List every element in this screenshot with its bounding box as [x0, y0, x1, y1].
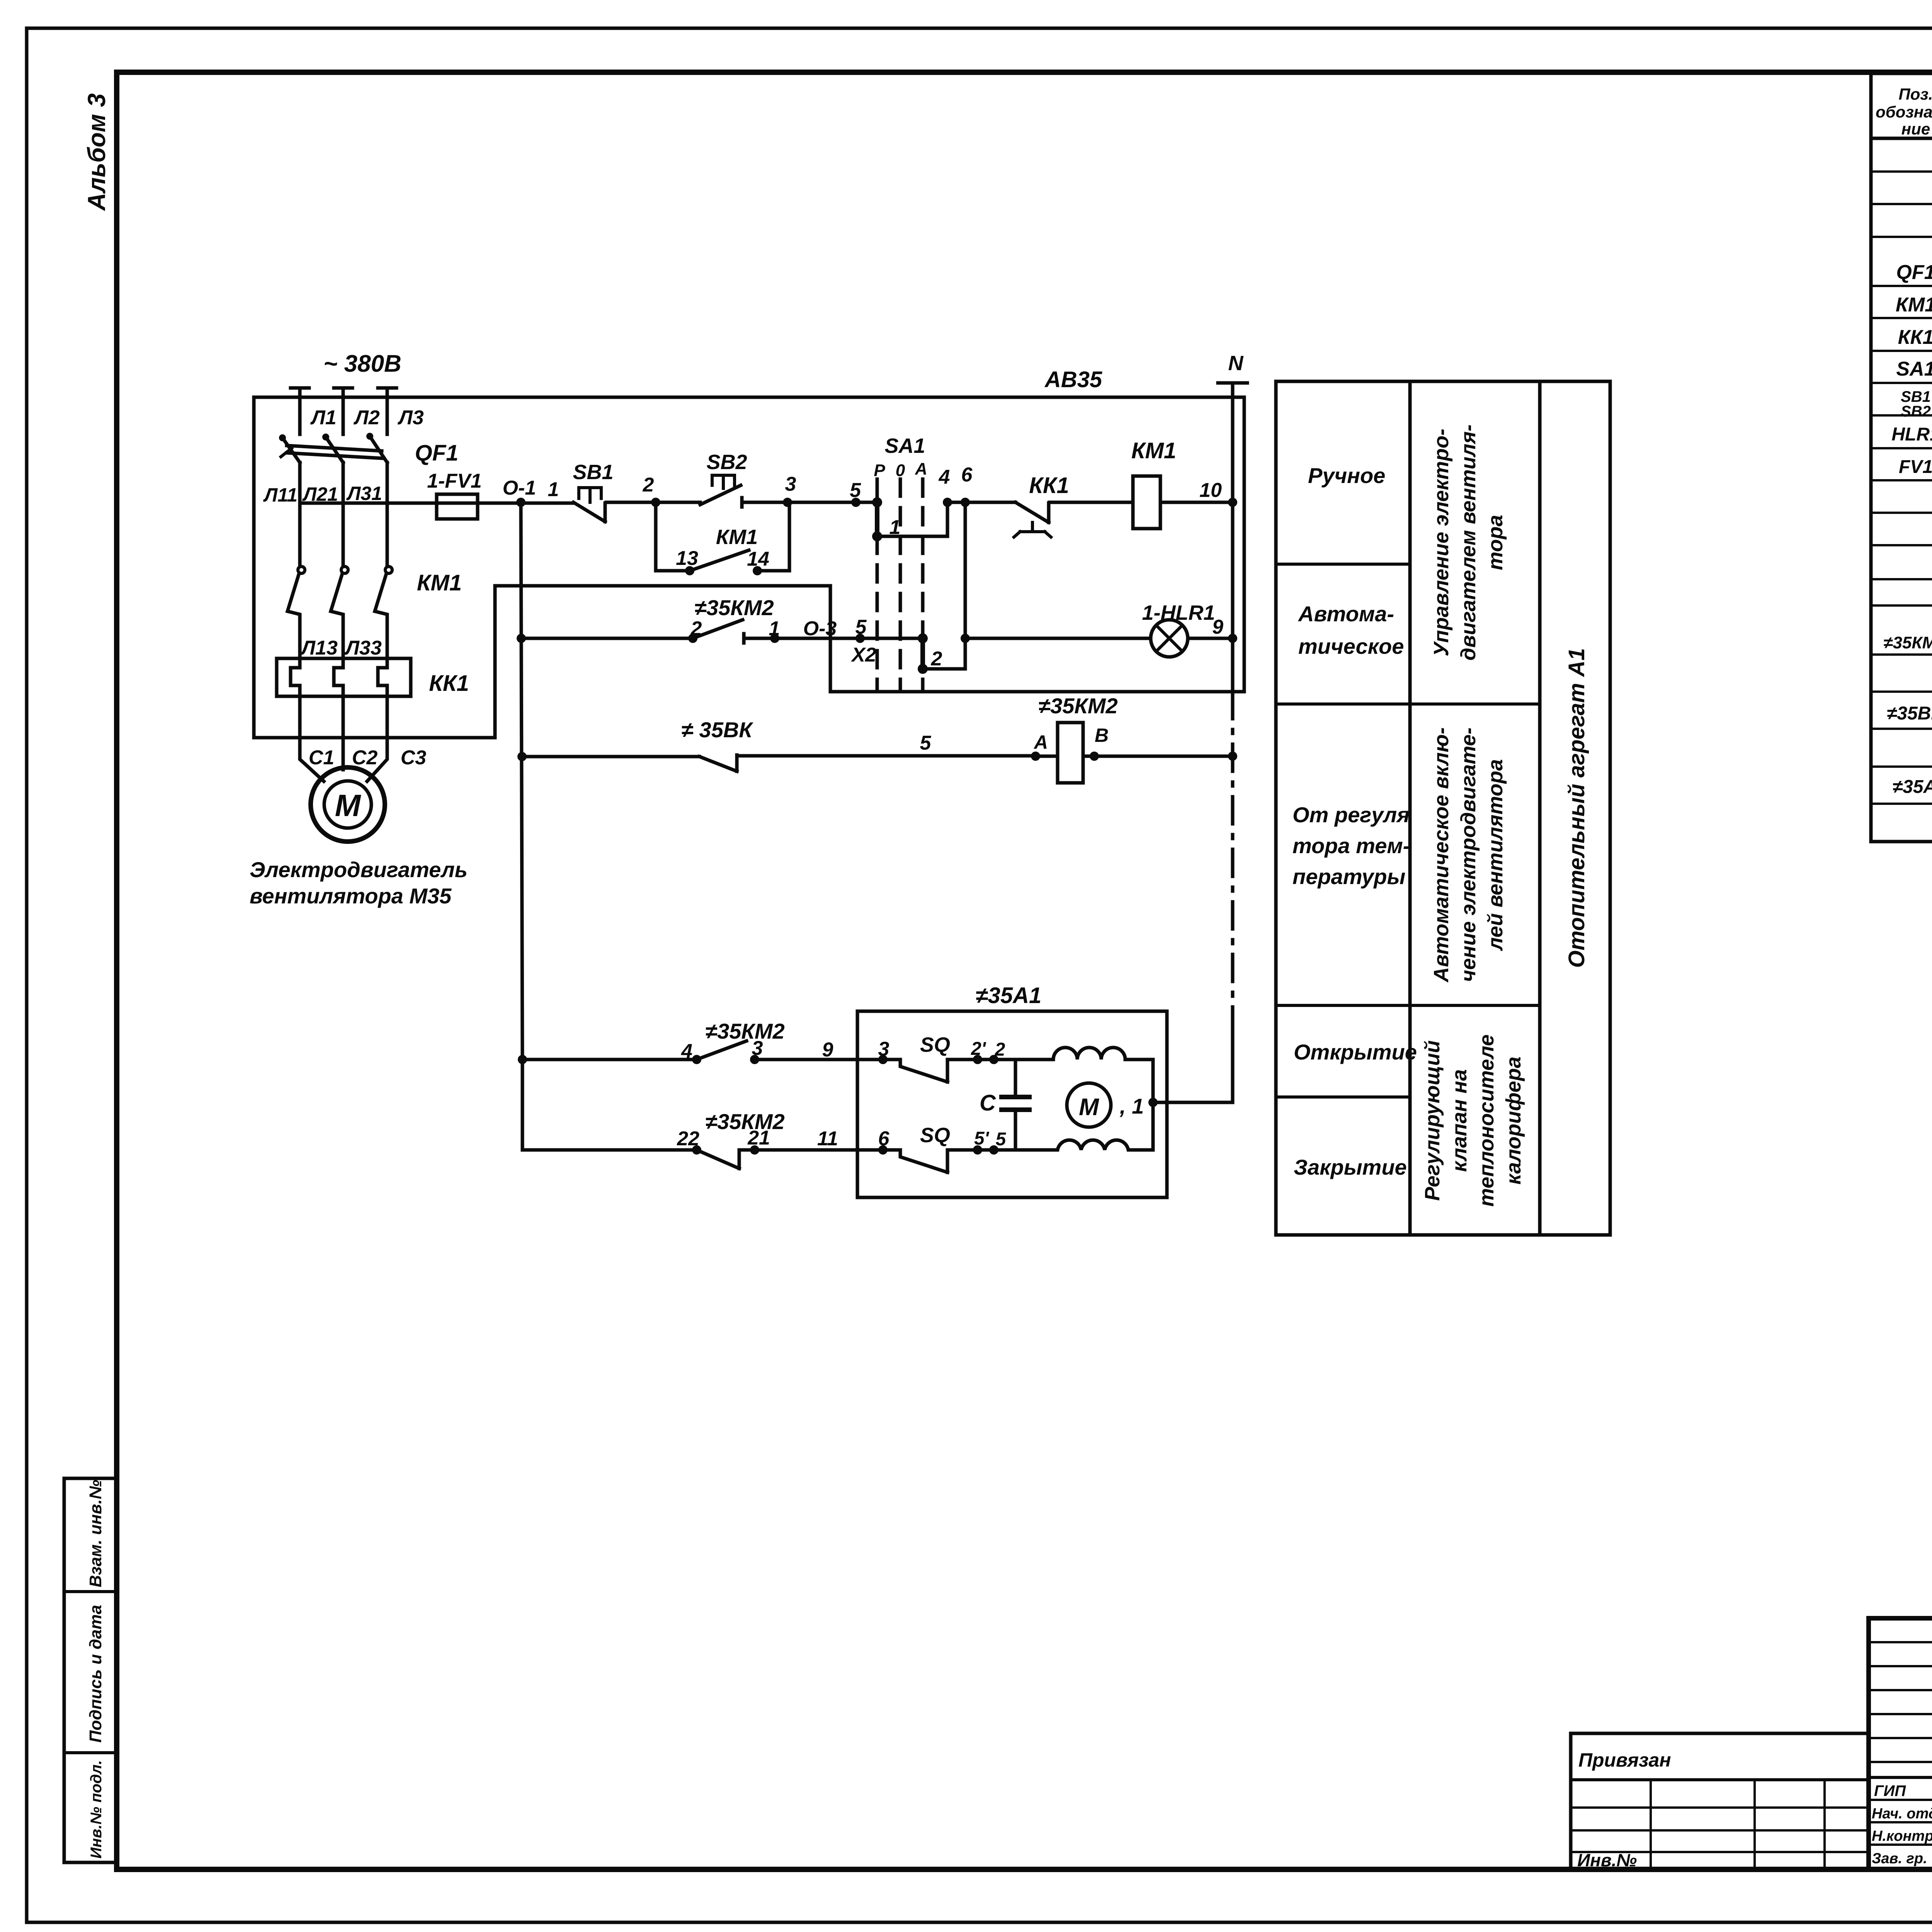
svg-text:вентилятора М35: вентилятора М35 [250, 884, 452, 908]
svg-text:Инв.№: Инв.№ [1577, 1850, 1637, 1870]
svg-text:тическое: тическое [1298, 634, 1404, 658]
capacitor C [980, 1060, 1029, 1150]
svg-text:КК1: КК1 [1898, 326, 1932, 349]
svg-text:13: 13 [676, 547, 698, 570]
svg-text:чение электродвигате-: чение электродвигате- [1457, 728, 1480, 982]
labels L11 L21 L31 [263, 483, 382, 506]
svg-text:10: 10 [1199, 479, 1222, 502]
svg-text:0: 0 [896, 461, 905, 480]
motor winding upper [994, 1048, 1153, 1060]
label: ~380V supply [323, 350, 401, 377]
wire: KK1 to KM1 coil [1049, 501, 1133, 504]
node 2 [643, 474, 660, 507]
svg-text:М: М [335, 788, 362, 823]
node on N row C [1228, 752, 1237, 761]
table row QF1 [1896, 259, 1932, 284]
labels L13 L33 [300, 637, 382, 659]
svg-text:Привязан: Привязан [1578, 1749, 1671, 1771]
svg-text:14: 14 [747, 548, 769, 570]
album label: Альбом 3 [83, 94, 111, 211]
node 6 row E [878, 1128, 890, 1155]
svg-text:, 1: , 1 [1119, 1094, 1144, 1118]
wire: SB1 to node 2 [606, 501, 656, 504]
svg-text:С2: С2 [352, 747, 378, 769]
svg-text:2: 2 [995, 1039, 1005, 1060]
svg-text:тора тем-: тора тем- [1293, 833, 1410, 858]
svg-text:КМ1: КМ1 [1896, 294, 1932, 316]
valve unit box 35A1 [857, 983, 1167, 1197]
svg-text:От регуля: От регуля [1293, 803, 1410, 827]
svg-text:М: М [1079, 1094, 1099, 1121]
KM1 holding contact branch 13-14 [656, 502, 789, 575]
wire: KK1 to motor leads [300, 696, 387, 781]
svg-text:11: 11 [817, 1128, 838, 1150]
label: Инв.№ подл. [88, 1760, 105, 1859]
svg-text:Нач. отд.: Нач. отд. [1872, 1806, 1932, 1822]
svg-text:≠35КМ2: ≠35КМ2 [705, 1019, 784, 1043]
svg-text:Н.контр.: Н.контр. [1872, 1828, 1932, 1844]
svg-text:КК1: КК1 [1029, 473, 1069, 498]
svg-text:SA1: SA1 [1896, 358, 1932, 380]
svg-text:Подпись и дата: Подпись и дата [86, 1605, 105, 1743]
svg-text:Х2: Х2 [850, 644, 876, 666]
node L3 supply terminal [378, 388, 424, 434]
fuse 1-FV1 [427, 470, 482, 519]
svg-text:Л1: Л1 [310, 406, 337, 429]
svg-text:2': 2' [971, 1039, 986, 1059]
svg-text:Поз.: Поз. [1899, 85, 1932, 103]
svg-text:4: 4 [939, 466, 950, 488]
svg-text:9: 9 [822, 1039, 833, 1061]
node O-1 [503, 477, 559, 507]
svg-text:1: 1 [769, 617, 780, 640]
limit switch SQ lower [900, 1124, 1007, 1172]
svg-text:SA1: SA1 [884, 434, 925, 457]
node 9 [1212, 616, 1237, 643]
svg-text:Л11: Л11 [263, 484, 298, 506]
wire: valve motor common [1148, 1060, 1158, 1150]
svg-text:4: 4 [681, 1040, 692, 1063]
svg-text:Открытие: Открытие [1294, 1040, 1417, 1064]
motor winding lower [999, 1140, 1153, 1150]
labels C1 C2 C3 [309, 747, 427, 769]
svg-text:≠35КМ2: ≠35КМ2 [1038, 694, 1117, 718]
svg-text:калорифера: калорифера [1502, 1056, 1525, 1184]
attachment table [1571, 1733, 1869, 1870]
svg-text:лей вентилятора: лей вентилятора [1484, 759, 1507, 952]
node 3 [783, 473, 796, 507]
svg-text:Автоматическое вклю-: Автоматическое вклю- [1430, 727, 1453, 983]
node 5 [850, 479, 861, 507]
title block: staff rows [1872, 1782, 1932, 1867]
svg-text:≠35КМ2: ≠35КМ2 [694, 595, 774, 620]
junction dots on feeder [517, 634, 527, 1064]
svg-text:SВ1: SВ1 [573, 461, 613, 484]
node L2 supply terminal [334, 388, 380, 434]
svg-text:5': 5' [974, 1128, 990, 1149]
wire: row B from O-1 feeder [522, 637, 693, 640]
valve motor M [1067, 1083, 1144, 1127]
svg-text:С3: С3 [401, 747, 427, 769]
svg-text:КМ1: КМ1 [417, 570, 462, 595]
svg-text:1: 1 [548, 478, 559, 501]
svg-text:С: С [980, 1090, 996, 1116]
svg-text:Л31: Л31 [346, 483, 382, 504]
svg-text:3: 3 [752, 1037, 763, 1060]
function legend table grid [1276, 381, 1610, 1235]
table row FV1 [1899, 453, 1932, 478]
title block main frame [1869, 1618, 1932, 1869]
svg-text:HLR1: HLR1 [1891, 424, 1932, 445]
node 4 and node 6 [939, 464, 973, 507]
svg-text:КМ1: КМ1 [716, 526, 758, 549]
table row 35KM2 [1883, 626, 1932, 652]
legend rotated cell: Отопительный агрегат А1 [1564, 648, 1589, 968]
svg-text:SВ2: SВ2 [1901, 403, 1931, 420]
neutral N lower solid segment [1153, 1027, 1233, 1102]
svg-text:Зав. гр.: Зав. гр. [1872, 1850, 1927, 1867]
table row KK1 [1898, 324, 1932, 349]
wire: lamp to node 9 [1188, 637, 1233, 640]
svg-text:КМ1: КМ1 [1131, 438, 1176, 463]
legend rotated cell: Автоматическое включение электродвигателей вентилятора [1430, 727, 1507, 983]
label 5 on row C [920, 732, 932, 754]
pushbutton SB1 [573, 461, 613, 522]
auxiliary contact 35KM2 row B [688, 595, 923, 643]
svg-text:SВ2: SВ2 [706, 451, 747, 474]
neutral N terminal [1218, 352, 1247, 692]
svg-text:9: 9 [1212, 616, 1223, 638]
svg-text:ГИП: ГИП [1874, 1782, 1906, 1799]
svg-text:5: 5 [855, 616, 867, 638]
table row 35A [1893, 773, 1932, 798]
auxiliary contact 35KM2 open row D [681, 1019, 900, 1064]
pushbutton SB2 [656, 451, 787, 507]
node 10 [1199, 479, 1237, 507]
left margin stamp column [64, 1478, 117, 1862]
table row KM1 [1896, 291, 1932, 316]
O-1 feeder vertical [521, 502, 522, 1150]
svg-text:N: N [1228, 352, 1244, 375]
contactor KM1 main contacts [287, 566, 462, 658]
svg-text:ние: ние [1901, 120, 1930, 138]
neutral N dash-dot segment [1231, 692, 1235, 1027]
auxiliary contact 35KM2 closed row E [677, 1109, 900, 1168]
legend cell: От регулятора температуры [1293, 803, 1410, 889]
contactor coil KM1 [1131, 438, 1176, 529]
svg-text:Регулирующий: Регулирующий [1421, 1040, 1444, 1201]
component table header texts [1876, 85, 1932, 138]
svg-text:клапан на: клапан на [1448, 1069, 1471, 1172]
svg-text:22: 22 [677, 1128, 699, 1150]
svg-text:С1: С1 [309, 747, 334, 769]
legend rotated cell: Регулирующий клапан на теплоносителе калорифера [1421, 1034, 1525, 1207]
svg-text:двигателем вентиля-: двигателем вентиля- [1457, 424, 1480, 660]
svg-text:Л2: Л2 [353, 406, 380, 429]
table row SA1 [1896, 355, 1932, 381]
svg-text:А: А [1033, 731, 1048, 753]
svg-text:1-HLR1: 1-HLR1 [1142, 601, 1215, 624]
SA1 contact A (2) [918, 633, 942, 674]
label AV35 [1044, 367, 1102, 392]
svg-text:6: 6 [961, 464, 973, 486]
svg-text:тора: тора [1484, 515, 1507, 570]
svg-text:3: 3 [878, 1038, 889, 1060]
wire: control row A [300, 502, 573, 505]
legend cell: Открытие [1294, 1040, 1417, 1064]
component list table grid [1871, 73, 1932, 842]
circuit breaker QF1 [279, 433, 458, 566]
SA1 contact P (1) [872, 497, 900, 541]
signal lamp 1-HLR1 [1142, 601, 1215, 657]
legend cell: Ручное [1308, 463, 1385, 488]
svg-text:≠35А: ≠35А [1893, 777, 1932, 797]
svg-text:Взам. инв.№: Взам. инв.№ [86, 1480, 105, 1587]
switch SA1 columns [874, 434, 927, 692]
cabinet AV35 outline [254, 397, 1244, 738]
svg-text:Альбом 3: Альбом 3 [83, 94, 111, 211]
svg-text:Электродвигатель: Электродвигатель [250, 857, 468, 882]
wire: row D [522, 1058, 697, 1061]
motor M35 [311, 767, 385, 842]
legend cell: Закрытие [1294, 1155, 1407, 1179]
wire: node3 to SA1 [787, 501, 877, 504]
wire: lamp row [965, 637, 1151, 640]
svg-text:Автома-: Автома- [1298, 602, 1394, 626]
svg-text:Управление электро-: Управление электро- [1430, 429, 1453, 656]
thermal relay KK1 heaters [277, 658, 469, 696]
svg-text:SQ: SQ [920, 1124, 950, 1147]
svg-text:~ 380В: ~ 380В [323, 350, 401, 377]
svg-text:А: А [915, 459, 927, 478]
terminal X2:5 [850, 616, 876, 666]
svg-text:пературы: пературы [1293, 864, 1405, 889]
svg-text:Л3: Л3 [397, 406, 424, 429]
svg-text:≠35КМ2: ≠35КМ2 [1883, 633, 1932, 652]
node L1 supply terminal [291, 388, 337, 434]
contactor coil 35KM2 [1031, 694, 1233, 783]
svg-text:5: 5 [920, 732, 932, 754]
svg-text:КК1: КК1 [429, 671, 469, 696]
wire: SA1 P to node 4 jog [877, 502, 947, 536]
svg-text:QF1: QF1 [415, 440, 459, 466]
svg-text:В: В [1095, 724, 1109, 746]
svg-text:Ручное: Ручное [1308, 463, 1385, 488]
svg-text:≠ 35ВК: ≠ 35ВК [681, 718, 753, 742]
wire: row E [522, 1148, 697, 1152]
svg-text:Закрытие: Закрытие [1294, 1155, 1407, 1179]
svg-text:обозначе-: обозначе- [1876, 103, 1932, 121]
svg-text:6: 6 [878, 1128, 890, 1150]
wire: lamp feeder from node 6 [923, 502, 970, 669]
svg-text:Инв.№ подл.: Инв.№ подл. [88, 1760, 105, 1859]
wire: node 4 to KK1 contact [947, 501, 1015, 504]
svg-text:≠35А1: ≠35А1 [976, 983, 1042, 1008]
svg-text:2: 2 [643, 474, 654, 496]
thermostat contact 35VK [681, 718, 1036, 771]
svg-text:1-FV1: 1-FV1 [427, 470, 482, 492]
svg-text:5: 5 [996, 1129, 1007, 1150]
svg-text:QF1: QF1 [1896, 261, 1932, 284]
wire: row C from feeder [522, 755, 699, 759]
svg-text:≠35ВК: ≠35ВК [1887, 703, 1932, 724]
svg-text:теплоносителе: теплоносителе [1475, 1034, 1498, 1207]
label: motor name [250, 857, 468, 908]
svg-text:3: 3 [785, 473, 796, 495]
svg-text:2: 2 [690, 617, 702, 640]
legend cell: Автоматическое [1298, 602, 1404, 658]
svg-text:FV1: FV1 [1899, 457, 1932, 477]
wire: coil to node 10 [1160, 501, 1233, 504]
svg-text:Р: Р [874, 461, 885, 480]
svg-text:≠35КМ2: ≠35КМ2 [705, 1109, 784, 1134]
svg-text:О-1: О-1 [503, 477, 536, 499]
svg-text:О-3: О-3 [803, 617, 837, 640]
node 3 row D [878, 1038, 889, 1064]
limit switch SQ upper [900, 1033, 1005, 1082]
thermal contact KK1 [1014, 473, 1069, 537]
svg-text:Л33: Л33 [344, 637, 382, 659]
table row SB1 SB2 [1901, 388, 1932, 420]
table row 35VK [1887, 699, 1932, 724]
label: Взам. инв.№ [86, 1480, 105, 1587]
legend rotated cell: Управление электродвигателем вентилятора [1430, 424, 1507, 660]
svg-text:АВ35: АВ35 [1044, 367, 1102, 392]
svg-text:Л13: Л13 [300, 637, 338, 659]
svg-text:Отопительный агрегат А1: Отопительный агрегат А1 [1564, 648, 1589, 968]
svg-text:SQ: SQ [920, 1033, 950, 1056]
svg-text:21: 21 [747, 1127, 770, 1149]
label: Подпись и дата [86, 1605, 105, 1743]
svg-text:5: 5 [850, 479, 861, 502]
table row HLR1 [1891, 420, 1932, 446]
svg-text:2: 2 [931, 648, 942, 670]
